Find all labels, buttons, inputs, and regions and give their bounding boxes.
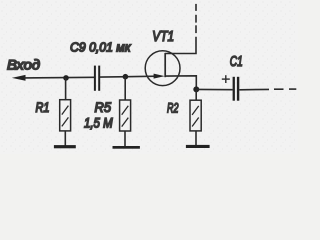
transistor VT1 body — [145, 51, 180, 86]
C1 polarity plus — [222, 78, 230, 80]
input arrow — [12, 75, 26, 81]
svg-text:R1: R1 — [36, 100, 50, 115]
capacitor C9 — [94, 66, 96, 91]
wire junction to R5 — [124, 77, 126, 101]
wire C9 to gate — [100, 75, 157, 78]
VT1 channel — [164, 53, 166, 77]
VT1 gate arrow — [154, 74, 165, 79]
wire R2 to ground — [195, 131, 197, 145]
wire junction to C1 — [196, 88, 232, 90]
svg-text:С9 0,01 мк: С9 0,01 мк — [70, 39, 131, 54]
svg-text:R2: R2 — [167, 100, 179, 115]
wire R5 to ground — [124, 131, 126, 146]
ground under R2 — [186, 145, 210, 148]
ground under R5 — [113, 146, 140, 149]
resistor R1 — [60, 100, 71, 131]
wire junction to R1 — [65, 78, 67, 100]
node source junction — [193, 86, 199, 92]
ground under R1 — [54, 145, 76, 148]
wire junction to R2 — [195, 89, 197, 100]
capacitor C1 — [233, 77, 235, 101]
svg-text:R5: R5 — [95, 99, 112, 115]
svg-text:Вход: Вход — [7, 57, 40, 73]
node gate-left junction — [63, 75, 69, 81]
wire R1 to ground — [64, 131, 66, 146]
svg-text:1,5 М: 1,5 М — [84, 116, 113, 131]
wire input to C9 — [24, 76, 95, 79]
resistor R5 — [120, 100, 131, 131]
node R5 junction — [123, 74, 129, 80]
VT1 source wire — [165, 76, 196, 90]
wire C1 output — [239, 88, 269, 90]
svg-text:VT1: VT1 — [152, 29, 174, 45]
output dashed line — [274, 88, 284, 90]
VT1 drain wire — [165, 37, 196, 54]
svg-text:С1: С1 — [230, 53, 243, 70]
resistor R2 — [190, 100, 201, 131]
drain dashed line — [195, 25, 197, 33]
